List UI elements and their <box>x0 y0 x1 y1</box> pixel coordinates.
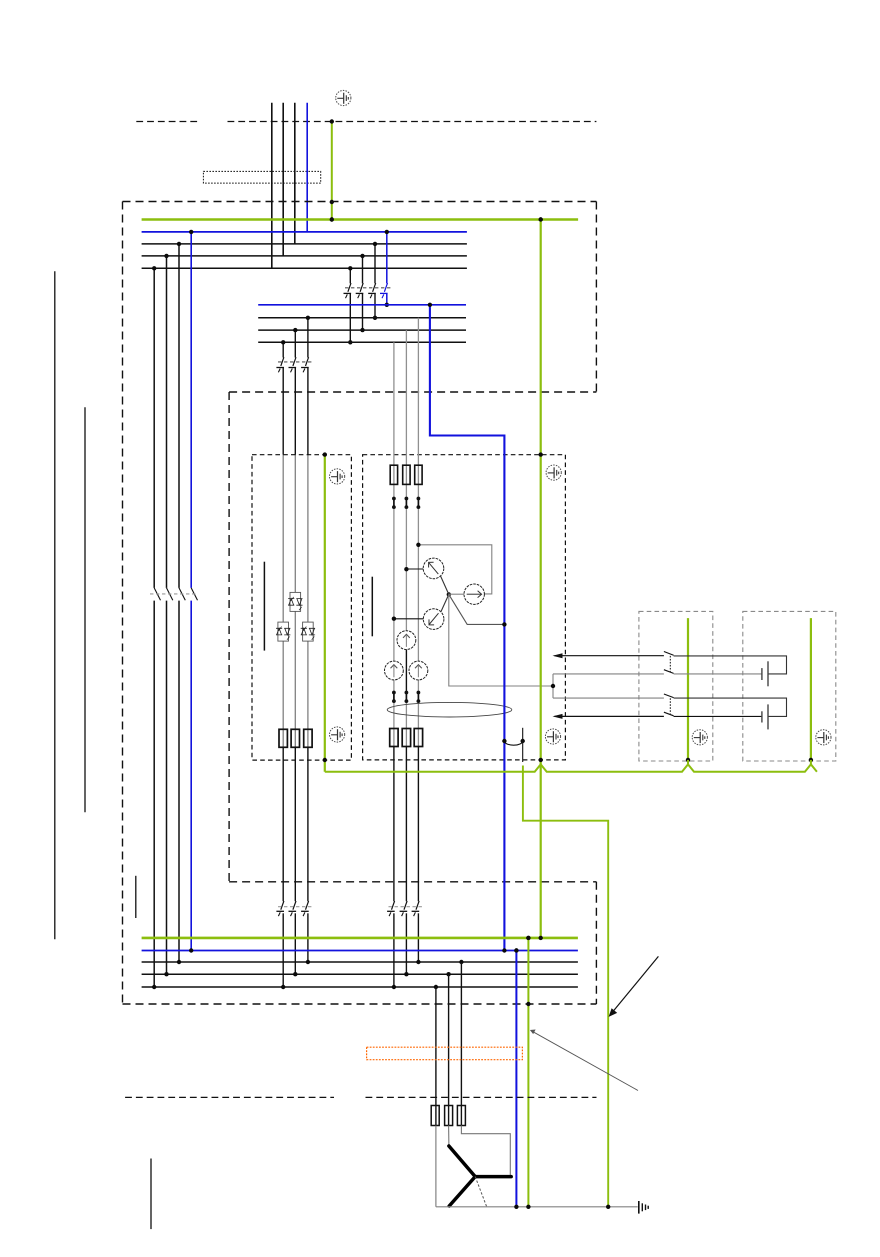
leader arrow to PE branch <box>611 956 659 1014</box>
wire N incomer (blue) <box>306 103 308 232</box>
node PE at enclosure edge <box>526 1002 530 1006</box>
wire A to battery1 loop <box>674 656 787 674</box>
wire PE battery box2 (green) <box>810 618 812 760</box>
leader line to PE drop <box>532 1031 638 1090</box>
node PE end <box>526 1205 530 1209</box>
wire left drop 1 <box>153 268 155 588</box>
bus L3 secondary <box>258 317 466 319</box>
bus PE lower (green) <box>142 937 578 940</box>
dashed line top-main segment <box>228 121 597 123</box>
node overlay (redraw junctions atop wires) <box>330 217 334 221</box>
dashed line bottom-left <box>125 1096 334 1098</box>
fuse F8 <box>402 729 410 747</box>
wire battery feed C <box>553 697 664 699</box>
ground E3 left box bottom <box>330 727 345 742</box>
wire C to battery2 loop <box>674 698 787 716</box>
enclosure inner left edge <box>228 392 230 882</box>
switch blade S1a <box>664 652 674 656</box>
nodes Q1 top <box>348 266 352 270</box>
ground E7 battery box2 <box>816 730 831 745</box>
diagonal junction-P3 <box>441 594 449 612</box>
switch blade S1b <box>664 670 674 674</box>
meter loop wiring <box>418 545 491 594</box>
bus L1 lower <box>142 986 578 988</box>
contacts lower row <box>392 691 396 703</box>
bus N lower (blue) <box>142 950 578 952</box>
battery box frame <box>743 611 836 761</box>
node N tap <box>428 303 432 307</box>
thyristor module V3 <box>301 622 315 641</box>
wire L1 incomer <box>271 103 273 269</box>
nodes meter lower <box>392 985 396 989</box>
wire motor B below fuse <box>448 1126 450 1147</box>
node PE-boxedge <box>330 200 334 204</box>
orange highlight box <box>367 1047 523 1060</box>
ground E4 right box top <box>546 465 561 480</box>
node battery mid <box>551 684 555 688</box>
ground symbol bottom right <box>639 1201 648 1214</box>
wire PE left box (green) <box>324 455 326 772</box>
label line far left 1 <box>54 271 56 939</box>
bus L2 upper <box>142 255 467 257</box>
thyristor module V1 <box>288 592 302 611</box>
fuse F11 <box>445 1106 453 1126</box>
enclosure lower step edge <box>229 881 596 883</box>
meter P4 (arrow up) <box>397 631 416 650</box>
ground E6 battery box1 <box>692 730 707 745</box>
wire D to battery2 minus <box>674 715 762 717</box>
wire earth run <box>436 1206 638 1208</box>
wire L2 incomer <box>282 103 284 256</box>
right box frame <box>363 455 566 760</box>
breaker Q2 linkage <box>278 361 313 363</box>
wire PE branch L (green) <box>523 766 608 1208</box>
wire hop stub <box>522 728 524 762</box>
PE stubs at chevron peaks <box>687 760 689 766</box>
wire meter phase C (gray) <box>417 318 419 499</box>
enclosure top edge <box>123 201 597 203</box>
node PE right box top <box>539 452 543 456</box>
node PE bat2 <box>809 758 813 762</box>
wire conv phase B <box>294 330 296 357</box>
wire to meter P1 <box>406 568 423 570</box>
nodes conv lower <box>281 985 285 989</box>
wire left drop 3 <box>178 244 180 588</box>
wire conv phase A <box>282 342 284 357</box>
bus N secondary (blue) <box>258 304 466 306</box>
wire N drop (blue) <box>515 951 517 1207</box>
fuse F1 <box>279 729 287 747</box>
node N end <box>514 1205 518 1209</box>
wire Q1 pole4 (blue) <box>386 232 388 284</box>
bus L1 upper <box>142 267 467 269</box>
fuse F12 <box>457 1106 465 1126</box>
bus L2 lower <box>142 973 578 975</box>
bus L1 secondary <box>258 341 466 343</box>
wire battery feed A with arrow <box>555 655 664 657</box>
switch blade S2a <box>664 694 674 698</box>
wire conv phase C <box>307 318 309 358</box>
fuse F9 <box>414 729 422 747</box>
fuse F2 <box>291 729 299 747</box>
wire battery feed D with arrow <box>555 715 664 717</box>
wire Q1 pole1 <box>349 268 351 283</box>
diagonal junction to blue N <box>449 594 505 624</box>
node PE branch end <box>606 1205 610 1209</box>
enclosure step edge <box>229 391 596 393</box>
wire mid connector <box>552 674 554 698</box>
wire to meter P3 <box>394 618 423 620</box>
node PE left box top <box>323 452 327 456</box>
wire motor phase B <box>448 974 450 1125</box>
switch S1 linkage <box>669 656 671 672</box>
CT ellipse <box>387 702 512 717</box>
wire N hop arc <box>504 741 522 745</box>
battery G2 plates <box>767 704 769 729</box>
meter P1 (arrow NW) <box>423 558 444 579</box>
node N hop <box>521 739 525 743</box>
breaker Q2 glyphs <box>276 357 284 372</box>
disconnector Q3 linkage <box>150 593 197 595</box>
meter P6 (arrow up) <box>409 661 428 680</box>
wire Q1 pole2 <box>362 256 364 284</box>
breaker Q4R glyphs <box>387 901 395 916</box>
nodes left taps lower <box>152 985 156 989</box>
enclosure bottom edge <box>123 1003 597 1005</box>
nodes conv taps <box>281 340 285 344</box>
wire motor phase A <box>435 987 437 1126</box>
fuse F3 <box>304 729 312 747</box>
wire B to battery1 minus <box>674 673 762 675</box>
bus N upper (blue) <box>142 231 467 233</box>
wire left drop N (blue) <box>190 232 192 588</box>
fuse F7 <box>390 729 398 747</box>
wire junction down to battery feed <box>449 594 553 686</box>
label line left small <box>135 876 137 918</box>
wire PE top (green) <box>331 122 333 220</box>
nodes Q1 bottom <box>348 340 352 344</box>
meter P5 (arrow up) <box>385 661 404 680</box>
fuse F10 <box>431 1106 439 1126</box>
ground E0 top <box>336 90 351 105</box>
bus L3 upper <box>142 243 467 245</box>
switch blade S2b <box>664 712 674 716</box>
breaker Q4R linkage <box>389 906 425 908</box>
bus PE upper (green) <box>142 218 578 221</box>
junction to P2 <box>449 593 464 595</box>
wire meter phase A (gray) <box>393 342 395 498</box>
wire PE drop (green) <box>527 938 529 1207</box>
contacts upper row <box>392 497 396 509</box>
enclosure right edge upper <box>595 202 597 393</box>
wire left drop 2 <box>166 256 168 588</box>
ground E5 right box bottom <box>545 729 560 744</box>
breaker Q1 linkage <box>345 287 392 289</box>
breaker Q4L linkage <box>278 906 313 908</box>
wire Q1 pole3 <box>374 244 376 284</box>
node PE-green-main <box>539 217 543 221</box>
wire star to PE <box>475 1177 486 1207</box>
dashed line top-left segment <box>136 121 197 123</box>
wire battery feed B <box>553 673 664 675</box>
meter junction node <box>447 592 451 596</box>
label tick right box <box>371 577 373 637</box>
nodes N/PE lower <box>502 948 506 952</box>
thyristor module V2 <box>276 622 290 641</box>
dashed line bottom-right <box>366 1096 597 1098</box>
node PE-dash <box>330 119 334 123</box>
bus PE chevron (green) <box>325 764 817 771</box>
motor star point (wye) <box>449 1146 511 1206</box>
battery switch box frame <box>639 611 713 761</box>
label line bottom left <box>150 1159 152 1230</box>
label tick left box <box>263 562 265 651</box>
dotted label rectangle <box>203 171 320 183</box>
enclosure left edge <box>122 202 124 1005</box>
nodes motor taps <box>434 985 438 989</box>
wire motor A below fuse <box>435 1126 437 1207</box>
fuse F5 <box>403 465 410 484</box>
node taps on upper buses <box>152 266 156 270</box>
wire PE right box (green) <box>540 220 542 938</box>
battery G1 plates <box>767 661 769 686</box>
meter P2 (arrow E) <box>464 584 484 604</box>
node PE-bus <box>330 217 334 221</box>
node PE right box bottom <box>539 758 543 762</box>
meter P3 (arrow SW) <box>423 609 444 630</box>
disconnector Q3 blades <box>154 588 160 600</box>
wire motor C below fuse <box>461 1126 510 1177</box>
left box frame <box>252 455 351 760</box>
breaker Q1 glyphs <box>344 283 352 298</box>
label line far left 2 <box>84 407 86 812</box>
switch S2 linkage <box>669 698 671 714</box>
wire motor phase C <box>460 962 462 1126</box>
enclosure right edge lower <box>595 882 597 1004</box>
wire L3 incomer <box>294 103 296 244</box>
wire N drop from bus2 <box>430 305 505 951</box>
diagonal P1-junction <box>441 576 449 594</box>
bus L3 lower <box>142 961 578 963</box>
wire PE battery box1 (green) <box>687 618 689 760</box>
wire meter phase B (gray) <box>405 330 407 498</box>
bus L2 secondary <box>258 329 466 331</box>
breaker Q4L glyphs <box>276 901 284 916</box>
fuse F4 <box>390 465 397 484</box>
ground E2 left box top <box>330 469 345 484</box>
node PE left box bottom <box>323 758 327 762</box>
fuse F6 <box>415 465 422 484</box>
node PE bat1 <box>686 758 690 762</box>
node N meter junction <box>502 622 506 626</box>
